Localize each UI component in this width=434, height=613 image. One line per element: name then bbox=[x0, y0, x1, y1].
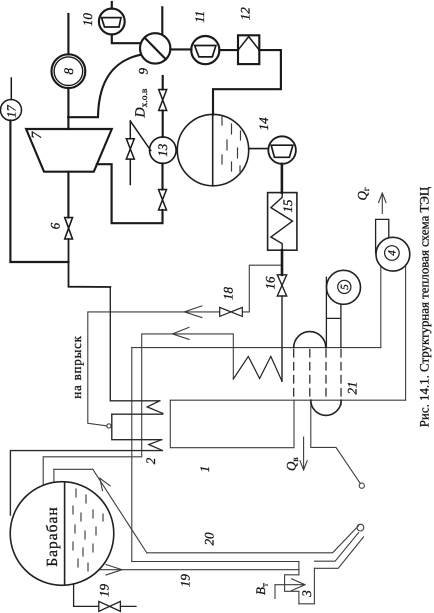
svg-text:18: 18 bbox=[220, 287, 235, 301]
coil in heater 15 bbox=[271, 193, 293, 251]
Qv arrow bbox=[300, 437, 307, 470]
valve 18 bbox=[220, 307, 243, 316]
drum bottom pipe with valve 19 bbox=[74, 584, 136, 607]
svg-text:13: 13 bbox=[155, 143, 170, 157]
arrow on injection line bbox=[184, 306, 202, 318]
drum right outlet arrow bbox=[106, 565, 122, 576]
wire pipe A downcomer bbox=[131, 348, 133, 562]
sensor 13 bbox=[150, 137, 177, 164]
svg-text:5: 5 bbox=[339, 284, 351, 290]
svg-text:9: 9 bbox=[136, 68, 151, 75]
valve 16 bbox=[277, 275, 286, 296]
vessel 21 dashed sides bbox=[294, 350, 341, 406]
pump 10 bbox=[99, 9, 125, 35]
wire valve18 branch bbox=[243, 265, 283, 312]
wire pipe B horizontal bbox=[170, 399, 405, 401]
burner box 3 bbox=[285, 575, 299, 592]
wire drum riser horizontal bbox=[54, 468, 93, 470]
wire stub above 17 bbox=[10, 78, 12, 100]
wire line 19 lower (from drum) bbox=[100, 569, 299, 571]
vessel 21 bottom arc bbox=[311, 400, 341, 415]
arrow on line 2 bbox=[172, 327, 189, 339]
valve хов bbox=[159, 90, 167, 111]
svg-text:2: 2 bbox=[143, 457, 158, 464]
wire valve18 to injection bbox=[88, 312, 220, 426]
svg-text:4: 4 bbox=[387, 250, 399, 256]
svg-text:20: 20 bbox=[202, 532, 217, 546]
fuel line Bt bbox=[275, 585, 296, 599]
wire 9 to 11 bbox=[170, 48, 191, 50]
wire line20 left diagonal riser to drum bbox=[93, 469, 147, 553]
svg-text:на впрыск: на впрыск bbox=[69, 335, 84, 399]
Qg arrow bbox=[379, 193, 386, 214]
svg-text:6: 6 bbox=[47, 222, 62, 229]
wire 12 to deaerator bbox=[213, 50, 281, 115]
heater 15 rect bbox=[268, 193, 297, 251]
wire valve to circle 13 bbox=[161, 163, 163, 189]
svg-text:1: 1 bbox=[197, 466, 212, 473]
wire turbine exhaust bbox=[67, 172, 69, 218]
turbine 7 bbox=[26, 129, 112, 172]
wire valve16 to superheater bbox=[281, 296, 283, 381]
svg-text:17: 17 bbox=[4, 105, 18, 118]
furnace left wall bbox=[298, 562, 300, 575]
valve below 13 bbox=[159, 190, 167, 211]
wire pipe A horizontal bbox=[132, 347, 381, 349]
fan 5 volute bbox=[327, 270, 361, 304]
deaerator water dashes bbox=[222, 116, 241, 174]
generator 8 bbox=[52, 54, 86, 88]
fan 4 volute bbox=[376, 237, 410, 271]
fuel arrow bbox=[292, 579, 306, 591]
filter 12 inner bbox=[238, 37, 259, 51]
filter 12 bbox=[238, 35, 259, 64]
valve 6 bbox=[65, 218, 73, 240]
svg-text:Барабан: Барабан bbox=[44, 506, 61, 566]
deaerator level chord bbox=[212, 114, 214, 185]
furnace right wall bbox=[313, 568, 315, 604]
wire deaerator to pump 14 bbox=[249, 148, 269, 150]
wire left blowdown column bbox=[10, 451, 162, 515]
wire arc from 9 to turbine inlet bbox=[68, 55, 140, 117]
pump 11 trapezoid bbox=[195, 46, 216, 57]
wire economizer exit line 2 bbox=[43, 334, 233, 485]
wire exhaust continues bbox=[69, 239, 111, 287]
header circle top of risers bbox=[357, 524, 364, 531]
drum circle bbox=[10, 482, 114, 586]
wire line 19 right upper bbox=[315, 533, 359, 562]
wire valve to circle 13 top bbox=[162, 111, 164, 138]
svg-text:7: 7 bbox=[30, 131, 45, 139]
svg-text:10: 10 bbox=[80, 13, 95, 27]
boiler 1 outline bbox=[170, 400, 294, 448]
coil zigzag1 bbox=[147, 401, 162, 414]
reducer 9 diagonal bbox=[145, 38, 166, 60]
pump 14 trapezoid bbox=[271, 145, 293, 157]
svg-text:3: 3 bbox=[299, 590, 314, 598]
deaerator tank bbox=[177, 114, 248, 185]
furnace bottom bbox=[299, 603, 315, 605]
wire line 19 right lower bbox=[314, 537, 363, 568]
svg-text:12: 12 bbox=[238, 7, 253, 20]
valve 19 bbox=[99, 601, 121, 611]
wire extraction bbox=[97, 164, 163, 223]
wire 15 to valve 16 bbox=[281, 250, 284, 275]
wire zigzag1 return bbox=[112, 412, 163, 415]
svg-text:11: 11 bbox=[192, 11, 207, 23]
svg-text:19: 19 bbox=[97, 584, 112, 598]
wire line 19 upper left bbox=[132, 561, 299, 563]
fan4 duct left down bbox=[380, 266, 382, 348]
svg-text:16: 16 bbox=[263, 276, 278, 290]
wire vessel drain to header bbox=[311, 400, 361, 483]
wire tee to meter 17 bbox=[10, 121, 68, 263]
wire main down right leg bbox=[110, 287, 160, 401]
control valve bowtie bbox=[126, 139, 134, 159]
wire 11 to 12 bbox=[219, 49, 238, 51]
furnace lower left wall bbox=[298, 591, 300, 604]
injection terminal circle bbox=[107, 424, 111, 428]
svg-text:Рис. 14.1. Структурная теплова: Рис. 14.1. Структурная тепловая схема ТЭ… bbox=[418, 187, 432, 427]
pump 10 stub bbox=[111, 2, 113, 9]
header circle lower bbox=[359, 483, 364, 488]
meter 17 bbox=[1, 100, 22, 121]
pump 10 trapezoid bbox=[102, 18, 122, 27]
arrow on riser diagonal bbox=[100, 478, 110, 491]
wire generator stub bbox=[67, 14, 69, 54]
wire gen to turbine bbox=[67, 88, 69, 129]
control valve lever diagonal bbox=[130, 121, 150, 151]
svg-text:15: 15 bbox=[280, 199, 295, 213]
pump 14 bbox=[268, 136, 296, 164]
wire drum feed y458 bbox=[53, 469, 55, 482]
reducer 9 bbox=[140, 33, 170, 63]
fan4 duct right down bbox=[405, 265, 407, 400]
control valve branch bbox=[129, 121, 131, 185]
wire 14 to heater 15 bbox=[281, 164, 284, 193]
drum level chord bbox=[64, 482, 66, 585]
pump 11 bbox=[191, 36, 219, 64]
svg-text:14: 14 bbox=[256, 117, 271, 130]
wire 10 to 9 bbox=[112, 34, 141, 43]
wire хов top stub bbox=[162, 76, 164, 90]
svg-text:21: 21 bbox=[344, 382, 359, 395]
wire zigzag2 upper bbox=[112, 414, 162, 440]
svg-text:8: 8 bbox=[61, 67, 76, 74]
wire line 20 bbox=[147, 526, 359, 553]
vessel 21 top arc bbox=[294, 332, 326, 348]
svg-text:19: 19 bbox=[177, 574, 192, 588]
drum water dashes bbox=[73, 489, 103, 571]
wire into 9 from top bbox=[161, 7, 163, 34]
superheater coil bbox=[233, 356, 282, 381]
coil zigzag2 bbox=[149, 440, 163, 451]
